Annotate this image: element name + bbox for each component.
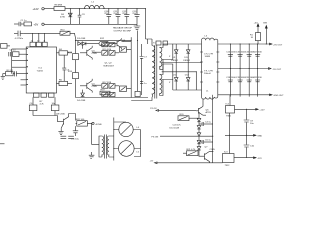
wire feedback line [33, 115, 58, 117]
svg-text:C5 1u: C5 1u [205, 140, 212, 142]
svg-text:10: 10 [251, 37, 254, 39]
label C24 47u [170, 124, 182, 129]
lamp L4 circle [114, 122, 141, 136]
junction ticks gnd bus [230, 95, 257, 97]
wire bottom rail [150, 160, 223, 163]
svg-text:C4 1u: C4 1u [205, 122, 212, 124]
resistor R8 [54, 5, 65, 11]
transformer T1 primary winding [152, 46, 155, 98]
svg-text:25V: 25V [113, 13, 117, 15]
svg-text:D11: D11 [173, 74, 178, 76]
svg-text:R17 R18: R17 R18 [103, 82, 112, 84]
wire pin7 stub [21, 84, 27, 86]
svg-text:C11 10u: C11 10u [71, 139, 80, 141]
capacitor C11 [113, 9, 120, 25]
resistor R4 pin right top [57, 49, 73, 55]
diode chain D14 [197, 126, 201, 133]
transistor Q6 [196, 99, 211, 115]
svg-text:MJE13007: MJE13007 [104, 66, 115, 68]
wire lamp top tie [125, 121, 127, 123]
wire secondary loop top [160, 44, 173, 69]
resistor R3 with capacitor C4 to ground [3, 70, 26, 77]
diode D9 rectifier [171, 44, 178, 64]
capacitor C7 coupling [140, 44, 148, 95]
svg-text:+5VSB: +5VSB [95, 124, 102, 126]
wire to rail x131 [122, 41, 132, 43]
capacitor C8 column [135, 31, 140, 97]
left edge mark A [1, 44, 11, 49]
wire pwr-ok line [150, 108, 196, 111]
capacitor C27 marks [61, 136, 74, 138]
svg-text:-12V: -12V [257, 158, 262, 160]
svg-text:C945: C945 [92, 53, 98, 55]
svg-text:D3 4148: D3 4148 [77, 38, 86, 40]
diode D5 upper left [82, 45, 84, 48]
resistor R14 left column bottom [68, 71, 78, 98]
resistor R26 [183, 149, 199, 156]
svg-text:+5V: +5V [254, 22, 258, 24]
capacitor bank column 1 [226, 44, 236, 95]
capacitor C23 [244, 135, 255, 157]
transformer T1 secondary top [160, 48, 162, 70]
capacitor C26 [71, 126, 80, 141]
svg-text:BW: BW [263, 22, 267, 24]
left edge mark B [0, 143, 5, 145]
capacitor C5 right [62, 55, 70, 81]
capacitor C2 input [14, 31, 24, 40]
svg-text:4736: 4736 [60, 16, 66, 18]
capacitor C25 [199, 122, 213, 126]
svg-text:4.7k: 4.7k [40, 104, 45, 106]
label R 4.7k [40, 101, 45, 106]
terminal +5VSB [92, 122, 102, 126]
pin box 4 [42, 33, 47, 46]
svg-text:Z: Z [169, 82, 171, 84]
resistor R25 [178, 114, 199, 120]
wire pin ladder vertical [11, 49, 13, 74]
svg-text:FR302: FR302 [171, 60, 178, 62]
svg-text:L4: L4 [137, 127, 140, 129]
wire row3 [24, 32, 60, 34]
capacitor C9 [78, 9, 86, 25]
ground main bus [134, 24, 141, 29]
diode D8 [60, 9, 72, 25]
svg-text:C9: C9 [82, 14, 86, 16]
ground Q8 [58, 128, 63, 134]
svg-text:7912: 7912 [225, 165, 231, 167]
wire pin rung 2 [12, 60, 27, 62]
transistor Q5 [109, 38, 126, 49]
wire rail1 segment B [65, 8, 85, 10]
vertical x147 primary feed [146, 39, 153, 46]
wire vertical x113.8 [113, 118, 115, 161]
pin box 16 bottom [49, 93, 55, 97]
svg-text:C10: C10 [250, 145, 255, 147]
svg-text:25V: 25V [122, 13, 126, 15]
capacitor bank column 3 [245, 44, 255, 95]
wire IC2 output [235, 108, 259, 110]
svg-text:R8 6R8: R8 6R8 [55, 5, 63, 7]
wire T3 right taps [109, 136, 114, 157]
resistor R9 bottom left [29, 97, 37, 115]
terminal +12V input [33, 7, 45, 11]
svg-text:R14: R14 [68, 71, 73, 73]
svg-text:4.7/250u: 4.7/250u [15, 38, 24, 40]
wire Q8 collector [69, 114, 76, 121]
svg-text:GND: GND [257, 136, 262, 138]
wire secondary loop bottom [160, 64, 173, 96]
pin box 12 [30, 33, 36, 46]
resistor pair R21 R22 [102, 92, 115, 96]
wire right vertical main [212, 95, 214, 163]
diode chain D13 [197, 112, 201, 125]
resistor R12 [88, 38, 109, 46]
svg-text:C945: C945 [210, 149, 216, 151]
resistor R6 pin right bottom [57, 80, 73, 86]
regulator IC2 7905 [226, 104, 235, 118]
pin box T1 b [163, 41, 168, 45]
wire primary bottom return [131, 97, 152, 100]
inductor L1 output choke [200, 36, 219, 100]
pin box T1 a [156, 41, 161, 45]
svg-text:GND OUT: GND OUT [274, 95, 285, 97]
label Q1 Q2 MJE13007 [104, 63, 115, 68]
vertical rail x131 [130, 37, 132, 97]
wire rail1 segment A [44, 8, 54, 10]
svg-text:L2: L2 [92, 2, 95, 4]
svg-text:A733: A733 [206, 111, 212, 114]
transformer T3 core [104, 135, 106, 159]
svg-text:C945: C945 [92, 86, 98, 88]
svg-text:-5V OUT: -5V OUT [273, 69, 282, 71]
wire output -5V line [218, 68, 271, 70]
svg-text:100M: 100M [205, 56, 211, 58]
transistor Q2 component [120, 86, 132, 91]
svg-text:+12V: +12V [259, 110, 265, 112]
svg-text:C17 330: C17 330 [253, 51, 262, 53]
wire center tap [162, 72, 197, 90]
wire driver bottom rail [76, 97, 149, 99]
label package group [113, 27, 133, 33]
svg-text:25V: 25V [132, 13, 136, 15]
wire mid gnd line [225, 134, 256, 136]
svg-text:L1: L1 [206, 90, 209, 92]
capacitor C12 [122, 9, 129, 25]
wire IC3 output [234, 157, 256, 159]
diode D10 rectifier [183, 44, 190, 64]
svg-text:L3: L3 [205, 36, 208, 38]
svg-text:OUTPUT B5 GRP: OUTPUT B5 GRP [114, 30, 132, 32]
resistor R24 sense [250, 22, 261, 44]
svg-text:Q7: Q7 [205, 146, 209, 148]
svg-text:PG 5V: PG 5V [150, 108, 157, 110]
pin box 7 bottom [34, 93, 40, 97]
capacitor C22 [244, 109, 255, 135]
svg-text:Z: Z [169, 56, 171, 58]
svg-text:1u: 1u [144, 83, 147, 85]
resistor R10 [60, 29, 70, 35]
transformer T1 core [155, 45, 157, 99]
label -5V arrow [269, 68, 282, 71]
svg-text:R21 4.7k: R21 4.7k [187, 149, 197, 151]
transformer T1 secondary bottom [160, 75, 162, 96]
transistor Q1 component [120, 47, 132, 52]
svg-text:R12: R12 [100, 38, 105, 40]
transistor Q7 [199, 146, 216, 162]
wire rectifier top bus [173, 43, 202, 45]
svg-text:+5V OUT: +5V OUT [273, 44, 283, 46]
wire pin rung 3 [12, 66, 27, 68]
svg-text:10u: 10u [250, 123, 254, 125]
resistor R13 left column top [68, 40, 78, 72]
regulator IC3 7912 [223, 152, 235, 168]
resistor R11 bottom right [51, 97, 59, 115]
svg-text:R22 100: R22 100 [76, 119, 85, 121]
capacitor bank column 4 [253, 44, 262, 95]
capacitor C13 [132, 9, 139, 25]
resistor pair R19 R20 [92, 82, 119, 88]
svg-text:R3 C4: R3 C4 [7, 70, 14, 72]
svg-text:Q8 C945: Q8 C945 [56, 114, 66, 116]
wire pin6 stub [21, 79, 27, 81]
lamp L5 circle [114, 141, 141, 157]
diode D11 rectifier [173, 64, 178, 90]
wire driver top rail [76, 39, 131, 41]
wire standby drop [92, 123, 99, 144]
wire IC2 feed [229, 95, 231, 106]
svg-text:25V: 25V [104, 13, 108, 15]
wire row3 to drive row [70, 33, 76, 40]
resistor R27 standby [76, 119, 92, 126]
svg-text:IC1: IC1 [39, 68, 43, 70]
svg-text:D4 4148: D4 4148 [77, 100, 86, 102]
resistor pair R15 R16 [102, 43, 115, 47]
svg-text:C21 330: C21 330 [253, 77, 262, 79]
transistor Q3 [80, 46, 98, 60]
pin number ticks IC1 [27, 49, 28, 85]
svg-text:L5: L5 [137, 151, 140, 153]
svg-text:-5V: -5V [150, 160, 154, 162]
pin box 15 bottom [41, 93, 47, 97]
svg-text:PACKAGE GROUP: PACKAGE GROUP [113, 27, 133, 30]
capacitor CX input [14, 20, 32, 26]
wire ps-on line [151, 136, 212, 138]
svg-text:FR302: FR302 [183, 60, 190, 62]
svg-text:C24 47u: C24 47u [173, 124, 182, 126]
ground standby [89, 152, 95, 158]
op-amp IC1 TL494 box [26, 47, 56, 93]
svg-text:TL494: TL494 [37, 71, 44, 73]
wire output +5V line [218, 43, 272, 45]
resistor R23 lower mid [100, 90, 110, 95]
svg-text:R13: R13 [68, 52, 73, 54]
diode D12 rectifier [185, 64, 190, 90]
wire output gnd line [218, 94, 272, 96]
wire secondary mid tap [162, 62, 202, 64]
capacitor C5b stub [199, 140, 213, 144]
wire T3 left taps [99, 136, 102, 157]
diode D6 lower left [77, 90, 86, 102]
svg-text:+5V: +5V [34, 23, 39, 27]
transformer T1 [152, 43, 162, 99]
label +5V arrow [270, 43, 283, 46]
capacitor C10 [104, 9, 111, 25]
wire sense arrow 2 [263, 22, 267, 44]
wire rail1 segment C [103, 8, 146, 10]
wire corner down to primary [145, 9, 147, 39]
capacitor C3 pin ladder top [9, 49, 26, 56]
label -12V arrow [254, 157, 263, 160]
resistor pair R17 R18 [92, 49, 119, 55]
svg-text:C7: C7 [144, 57, 148, 59]
diode chain D15 [197, 133, 201, 140]
svg-text:7905: 7905 [226, 116, 232, 118]
diode chain D16 [197, 140, 201, 146]
svg-text:D14 4148: D14 4148 [170, 127, 180, 129]
wire rail2 [44, 23, 137, 25]
svg-text:PS ON: PS ON [151, 137, 158, 139]
label +9V arrow [256, 108, 265, 111]
svg-text:C1 1u: C1 1u [21, 20, 28, 22]
transformer T3 left winding [102, 136, 104, 157]
transformer T3 standby [102, 135, 109, 159]
svg-text:C3 1u: C3 1u [10, 50, 17, 52]
svg-text:D12: D12 [185, 74, 190, 76]
capacitor bank column 2 [236, 44, 246, 95]
svg-text:R15 R16: R15 R16 [103, 49, 112, 51]
terminal +5V input [34, 23, 45, 27]
diode chain D17 [197, 147, 201, 154]
label gnd2 arrow [254, 134, 263, 137]
pin box 13 [36, 33, 41, 46]
svg-text:C9: C9 [250, 120, 254, 122]
transformer T3 right winding [107, 136, 109, 157]
transistor Q4 [80, 79, 98, 93]
wire lamps right tie [114, 122, 141, 157]
wire IC3 vertical tie [229, 113, 231, 154]
label gnd arrow [270, 94, 285, 97]
wire rectifier bottom bus [173, 80, 202, 91]
ground left [1, 76, 5, 79]
svg-text:Q1, Q2: Q1, Q2 [105, 63, 113, 65]
svg-text:+12V: +12V [33, 7, 39, 11]
transistor Q8 standby [56, 114, 69, 129]
inductor L2 [85, 2, 105, 9]
svg-text:200uH: 200uH [204, 73, 211, 75]
diode pair D3 D4 [77, 38, 88, 46]
